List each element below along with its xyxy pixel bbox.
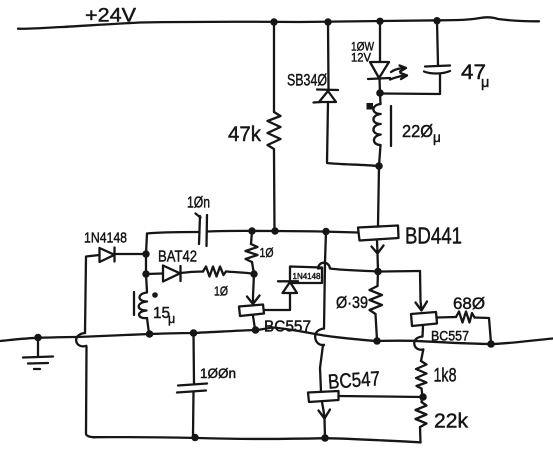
svg-text:μ: μ	[168, 312, 175, 326]
wire to 1N4148 cathode	[115, 253, 146, 255]
transistor Q BD441	[358, 226, 399, 254]
node dot LED/inductor/47u	[376, 89, 384, 97]
wire 1k8 to divider node	[422, 389, 423, 397]
wire 10 vertical top lead	[251, 231, 252, 244]
svg-text:BAT42: BAT42	[158, 249, 197, 266]
svg-text:22Ø: 22Ø	[402, 121, 433, 141]
resistor R 10 vertical	[246, 244, 258, 262]
wire mid row to BD441 base	[207, 231, 358, 233]
wire inductor to node	[379, 145, 381, 166]
wire 0V middle rail	[0, 328, 553, 345]
diode D BAT42	[163, 266, 181, 282]
wire BC547 base to divider	[339, 396, 423, 397]
wire BC557 left emitter with arrow	[247, 274, 260, 304]
node dot BC547/bottom rail	[321, 434, 329, 442]
wire 1N4148 anode down left side	[85, 255, 100, 333]
capacitor C 100n	[177, 384, 207, 393]
node dot rail/47k	[270, 18, 277, 25]
wire hop loop over 0V rail centre	[315, 329, 324, 392]
resistor R 47k	[268, 112, 281, 152]
wire BAT42 anode lead	[146, 272, 163, 275]
wire emitter row with hop	[318, 263, 420, 272]
svg-text:BD441: BD441	[405, 223, 462, 249]
node dot emitter junction	[374, 268, 382, 276]
node dot 0.39/0V rail	[373, 337, 381, 345]
svg-text:1ØØn: 1ØØn	[200, 365, 236, 381]
capacitor C 15u electrolytic	[134, 292, 158, 318]
svg-text:22k: 22k	[434, 411, 469, 433]
node dot rail/47u	[433, 17, 440, 24]
svg-text:12V: 12V	[351, 53, 371, 65]
node dot BC557/0V rail	[252, 326, 260, 334]
node dot 15u/0V rail	[146, 330, 154, 338]
wire bottom rail	[93, 437, 421, 442]
svg-text:μ: μ	[481, 75, 489, 91]
node dot BAT42 branch	[142, 270, 149, 277]
wire LED upper lead	[379, 21, 381, 61]
wire BC557 right collector down	[421, 326, 424, 337]
wire 15u top lead	[146, 274, 147, 292]
svg-text:SB34Ø: SB34Ø	[287, 72, 327, 90]
svg-text:1Ø: 1Ø	[260, 246, 274, 260]
wire 100n top lead	[192, 333, 195, 383]
svg-text:1N4148: 1N4148	[84, 231, 127, 247]
wire 47u lower lead	[381, 74, 440, 95]
LED D 10W 12V	[368, 62, 407, 80]
node dot 100n/bottom rail	[191, 434, 198, 441]
wire BC557 right emitter with arrow	[416, 271, 428, 311]
resistor R 0.39	[370, 286, 383, 314]
wire 47k upper lead	[273, 22, 275, 112]
wire 47k lower lead	[273, 152, 276, 231]
capacitor C 47u	[424, 66, 450, 74]
wire hop loop over 0V rail left	[76, 333, 95, 437]
svg-text:μ: μ	[433, 130, 441, 145]
diode D 1N4148 mid	[278, 281, 298, 293]
capacitor C 10n	[196, 214, 208, 247]
node dot divider	[419, 393, 427, 401]
resistor R 680	[456, 312, 475, 323]
wire 0.39 to 0V rail	[376, 314, 378, 340]
node dot 10/10/BC557	[250, 270, 257, 277]
wire top +24V rail	[18, 17, 539, 28]
resistor R 22k	[416, 402, 427, 427]
wire BC557 left collector to 0V rail	[253, 316, 255, 329]
node dot feedback line top	[322, 228, 329, 235]
diode D SB340	[314, 90, 339, 103]
wire 22k to bottom rail	[419, 427, 422, 443]
node dot 680/0V rail	[487, 340, 495, 348]
wire BC547 emitter to bottom rail	[323, 419, 326, 438]
svg-text:1ØW: 1ØW	[351, 40, 375, 54]
wire BC557 left base	[264, 294, 290, 310]
transistor Q BC547	[308, 391, 339, 419]
wire left branch vertical top	[146, 234, 147, 255]
node dot rail/SB340	[324, 18, 331, 25]
wire feedback vertical long	[324, 232, 326, 329]
wire SB340 to node	[327, 102, 379, 166]
node dot ground/0V rail	[34, 334, 42, 342]
node dot 1N4148/branch	[142, 250, 149, 257]
wire 10 to emitter node	[226, 272, 254, 275]
wire BD441 emitter to node	[376, 254, 379, 272]
svg-text:Ø·39: Ø·39	[336, 294, 368, 312]
wire hop loop over 0V rail right	[414, 337, 423, 362]
wire 680 to 0V rail	[475, 318, 492, 344]
wire 10 vertical to node	[252, 262, 254, 274]
wire BC557 right base lead	[437, 316, 457, 319]
node dot 47k bottom	[271, 227, 278, 234]
node dot 100n/0V rail	[190, 329, 198, 337]
resistor R 22k upper lead	[422, 397, 423, 402]
diode D 1N4148 left	[100, 248, 115, 263]
transistor Q BC557 left	[239, 305, 264, 317]
resistor R 10 horizontal	[203, 267, 226, 277]
wire SB340 upper lead	[327, 22, 330, 89]
wire 100n to bottom rail	[192, 392, 195, 437]
wire BD441 collector	[378, 166, 379, 226]
ground symbol	[23, 337, 53, 369]
wire 47u upper lead	[437, 21, 438, 65]
wire BAT42 to resistor	[181, 272, 204, 274]
wire LED cathode to node	[378, 78, 381, 93]
svg-text:+24V: +24V	[85, 5, 136, 27]
wire branch between nodes	[145, 254, 147, 274]
svg-text:BC547: BC547	[327, 367, 380, 394]
resistor R 1k8	[416, 361, 427, 389]
node dot 10n/10 resistor	[248, 227, 255, 234]
label box 1N4148 mid	[290, 267, 322, 284]
svg-text:1N4148: 1N4148	[293, 271, 321, 281]
svg-text:68Ø: 68Ø	[453, 295, 485, 313]
svg-text:1Øn: 1Øn	[187, 195, 210, 212]
inductor L 220u	[367, 93, 392, 146]
resistor R 0.39 upper lead	[376, 272, 379, 287]
svg-text:1k8: 1k8	[434, 366, 457, 387]
wire 15u to 0V rail	[147, 318, 149, 334]
node dot rail/LED	[376, 18, 383, 25]
wire mid row left segment	[147, 232, 199, 234]
svg-text:47k: 47k	[228, 123, 261, 146]
transistor Q BC557 right	[411, 312, 437, 326]
svg-text:1Ø: 1Ø	[214, 284, 228, 299]
node dot SB340/inductor/BD441	[375, 162, 383, 170]
